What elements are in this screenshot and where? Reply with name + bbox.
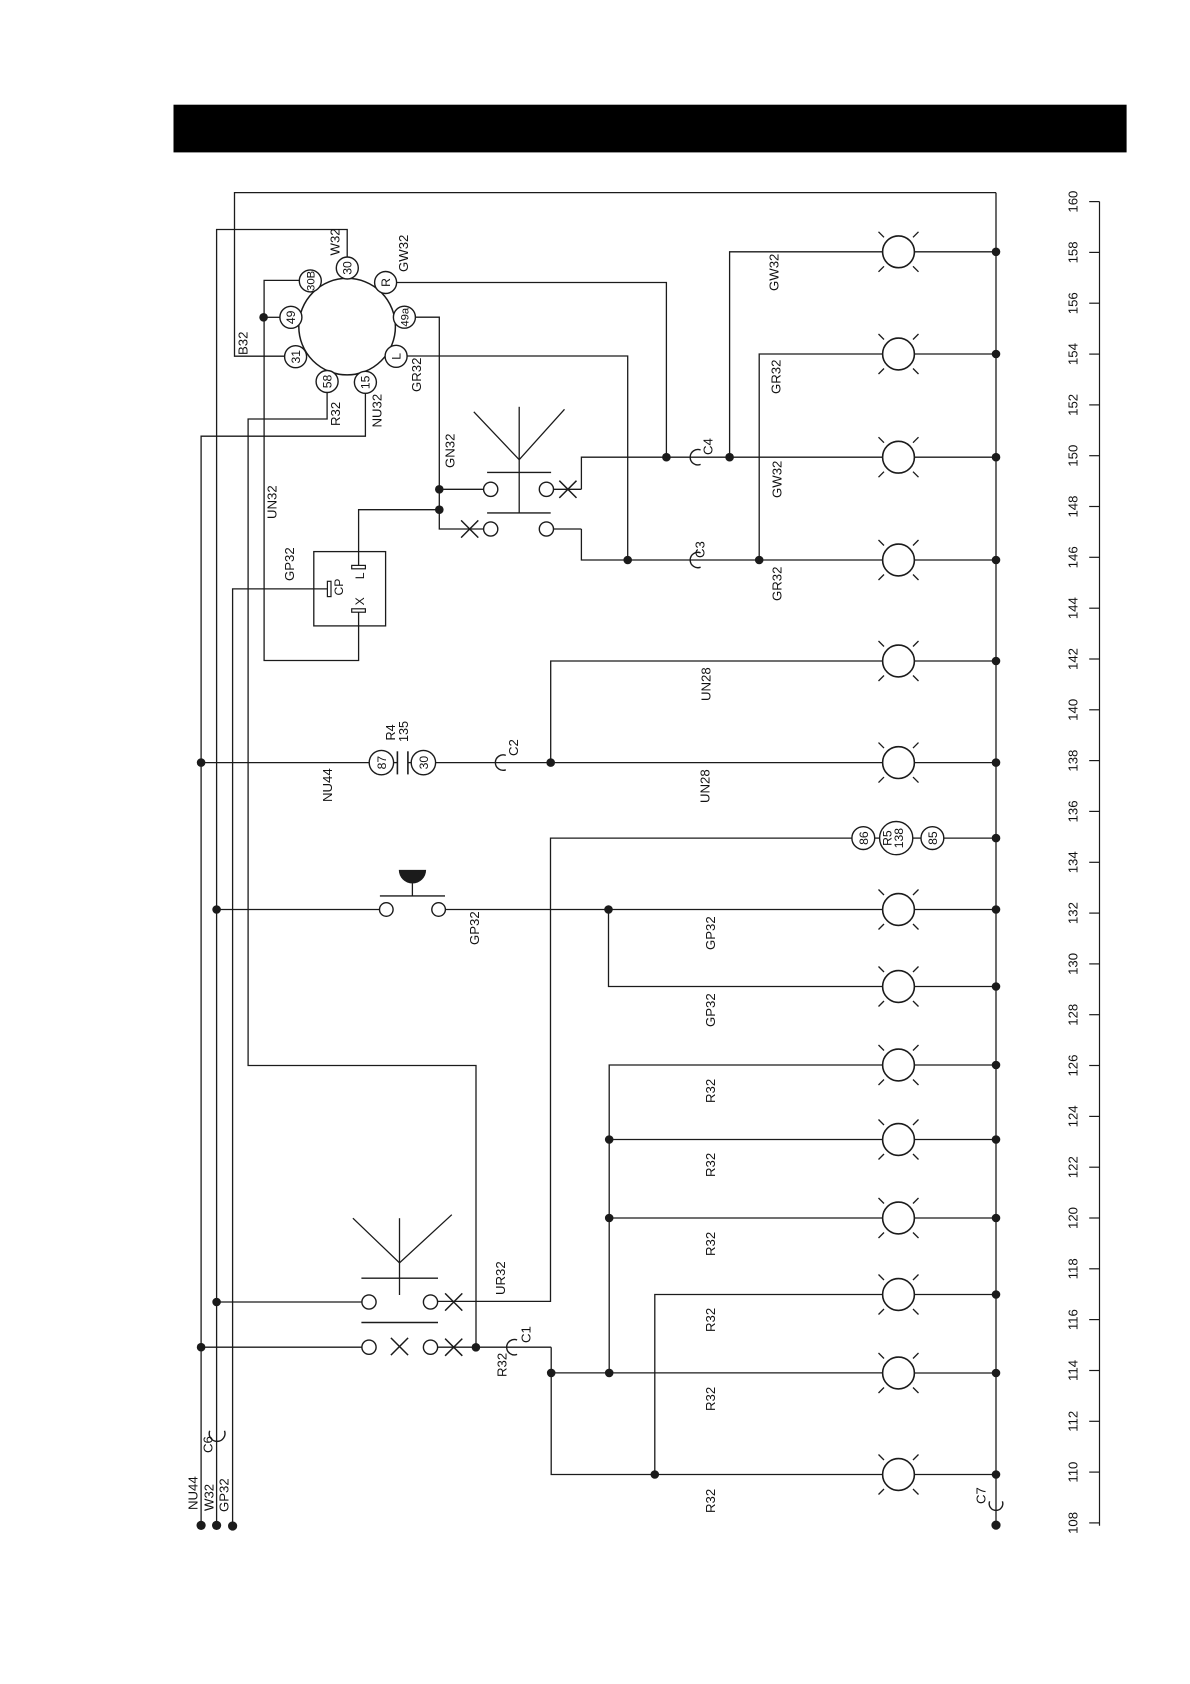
node C1 corner xyxy=(547,1369,556,1378)
svg-text:R32: R32 xyxy=(703,1232,718,1256)
svg-text:144: 144 xyxy=(1066,597,1081,619)
label R32 lamp11 xyxy=(703,1232,718,1256)
contact circle ls-row1 left xyxy=(362,1295,376,1309)
svg-text:150: 150 xyxy=(1066,445,1081,467)
wire W32 to lighting switch xyxy=(217,1301,362,1303)
wire lamp parking GP32 a to bus xyxy=(914,909,996,911)
svg-text:GW32: GW32 xyxy=(396,235,411,272)
svg-text:R32: R32 xyxy=(703,1079,718,1103)
svg-text:NU44: NU44 xyxy=(320,768,335,802)
label GW32 R xyxy=(396,235,411,272)
wire link terminal 49 xyxy=(264,316,280,318)
lamp front indicator right xyxy=(879,232,919,272)
wire NU32 from terminal 15 xyxy=(201,393,365,1525)
turn signal switch lever xyxy=(474,407,565,513)
relay R5 terminal 85 xyxy=(921,827,944,850)
lighting switch bar upper xyxy=(361,1277,438,1279)
label 135 xyxy=(397,721,411,742)
connector C2 xyxy=(495,755,505,770)
svg-text:114: 114 xyxy=(1066,1360,1081,1381)
label UR32 xyxy=(493,1261,508,1295)
node R-line to C4 line xyxy=(662,453,671,462)
wire GW32 from terminal R xyxy=(397,283,667,458)
lamp rear indicator left xyxy=(879,540,919,580)
node junction 49/30B xyxy=(259,313,268,322)
node lamp10 tap xyxy=(605,1135,614,1144)
wire W32 to horn button xyxy=(217,909,380,911)
contact X row1 right xyxy=(559,481,576,498)
lamp instrument UN28 a xyxy=(879,641,919,681)
node L-line to C3 line xyxy=(623,556,632,565)
svg-text:CP: CP xyxy=(332,579,346,596)
label GP32 lamp7 xyxy=(703,916,718,950)
svg-text:146: 146 xyxy=(1066,546,1081,568)
svg-text:49: 49 xyxy=(284,310,298,324)
svg-text:NU44: NU44 xyxy=(186,1476,201,1510)
label GN32 xyxy=(443,434,458,468)
svg-text:R32: R32 xyxy=(494,1353,509,1377)
label GW32 lamp3 xyxy=(770,461,785,498)
wire GP32 from flasher CP xyxy=(233,589,328,1527)
lamp parking GP32 a xyxy=(879,890,919,930)
svg-text:108: 108 xyxy=(1066,1512,1081,1534)
wire lamp rear indicator right to bus xyxy=(914,456,996,458)
wire lamp rear indicator left to bus xyxy=(914,559,996,561)
svg-text:30: 30 xyxy=(341,261,355,275)
svg-text:136: 136 xyxy=(1066,800,1081,822)
node bus tap lamp tail R32 c xyxy=(992,1214,1001,1223)
lamp tail R32 f xyxy=(879,1455,919,1495)
svg-text:UN28: UN28 xyxy=(699,667,714,701)
svg-text:110: 110 xyxy=(1066,1462,1081,1483)
svg-text:GW32: GW32 xyxy=(767,254,782,291)
label W32 xyxy=(327,228,342,255)
relay R5 coil xyxy=(880,822,913,855)
button contact right xyxy=(432,903,446,917)
wire main earth bus B32 xyxy=(995,193,997,1526)
resistor R4 terminal 30 xyxy=(411,750,435,774)
label R32 lamp12 xyxy=(703,1308,718,1332)
lighting switch bar lower xyxy=(361,1322,438,1324)
svg-text:L: L xyxy=(353,572,367,579)
contact circle row1 right xyxy=(539,482,553,496)
contact circle row2 left xyxy=(484,522,498,536)
terminal end NU44 xyxy=(186,1476,206,1530)
contact X ls-row1 xyxy=(445,1293,462,1310)
svg-text:GP32: GP32 xyxy=(467,911,482,945)
turn signal switch bar upper xyxy=(487,471,551,473)
label GP32 button xyxy=(467,911,482,945)
label B32 xyxy=(236,332,251,355)
node V2 to C1 line xyxy=(605,1369,614,1378)
switch terminal 15 xyxy=(354,371,376,393)
svg-text:148: 148 xyxy=(1066,496,1081,518)
node bus tap lamp front indicator left xyxy=(992,350,1001,359)
wire UN32 from terminal 30B xyxy=(264,280,359,660)
contact X ls-row2 mid xyxy=(391,1338,408,1355)
svg-text:154: 154 xyxy=(1066,343,1081,365)
lamp tail R32 a xyxy=(879,1045,919,1085)
svg-text:135: 135 xyxy=(397,721,411,742)
label R32 lamp14 xyxy=(703,1489,718,1513)
node bus tap lamp instrument UN28 a xyxy=(992,657,1001,666)
svg-text:122: 122 xyxy=(1066,1156,1081,1178)
svg-text:134: 134 xyxy=(1066,851,1081,873)
svg-text:R32: R32 xyxy=(703,1387,718,1411)
wire front left indicator xyxy=(759,354,882,560)
label GR32 lamp4 xyxy=(770,567,785,601)
svg-text:R32: R32 xyxy=(703,1308,718,1332)
lamp tail R32 e xyxy=(879,1353,919,1393)
lamp front indicator left xyxy=(879,334,919,374)
svg-text:X: X xyxy=(353,597,367,605)
node lamp2 branch xyxy=(755,556,764,565)
wire 85 to bus xyxy=(944,837,996,839)
svg-text:138: 138 xyxy=(892,828,906,849)
svg-text:C2: C2 xyxy=(506,739,521,756)
label GR32 L xyxy=(409,358,424,392)
svg-text:GP32: GP32 xyxy=(217,1478,232,1512)
node bus tap lamp rear indicator left xyxy=(992,556,1001,565)
contact X row2 left xyxy=(461,520,478,537)
svg-text:GR32: GR32 xyxy=(770,567,785,601)
svg-text:85: 85 xyxy=(926,831,940,845)
wire lamp front indicator right to bus xyxy=(914,251,996,253)
label C2 xyxy=(506,739,521,756)
wire UN28 branch lamp5 xyxy=(551,661,883,763)
wire lamp11 xyxy=(609,1217,882,1219)
node bus tap lamp tail R32 a xyxy=(992,1061,1001,1070)
svg-text:GP32: GP32 xyxy=(703,916,718,950)
contact circle row1 left xyxy=(484,482,498,496)
wire lamp tail R32 b to bus xyxy=(914,1139,996,1141)
svg-text:30B: 30B xyxy=(306,271,318,291)
node lamp11 tap xyxy=(605,1214,614,1223)
scale numbers xyxy=(1066,191,1081,1534)
svg-text:R4: R4 xyxy=(384,724,398,740)
svg-text:58: 58 xyxy=(320,375,334,389)
svg-text:132: 132 xyxy=(1066,902,1081,924)
turn signal switch bar lower xyxy=(487,512,551,514)
connector C1 xyxy=(507,1340,517,1355)
switch terminal 49 xyxy=(280,306,302,328)
wire lamp instrument UN28 b to bus xyxy=(914,762,996,764)
contact circle ls-row1 right xyxy=(423,1295,437,1309)
connector C7 xyxy=(989,1501,1003,1510)
label UN32 xyxy=(265,485,280,519)
horn button bar xyxy=(380,895,445,897)
label C7 xyxy=(973,1487,988,1504)
svg-text:UN32: UN32 xyxy=(265,485,280,519)
flasher unit box GP32 xyxy=(314,552,386,626)
switch terminal L xyxy=(385,345,407,367)
svg-text:126: 126 xyxy=(1066,1055,1081,1077)
node GP32 branch xyxy=(604,905,613,914)
svg-text:C7: C7 xyxy=(973,1487,988,1504)
label C1 xyxy=(518,1326,533,1343)
node bus tap lamp tail R32 f xyxy=(992,1470,1001,1479)
lamp rear indicator right xyxy=(879,437,919,477)
switch terminal 58 xyxy=(316,371,338,393)
wire flasher L to switch common xyxy=(359,510,440,566)
node switch common lower row xyxy=(435,505,444,514)
flasher terminal CP xyxy=(327,579,346,597)
svg-text:R32: R32 xyxy=(703,1153,718,1177)
flasher terminal X xyxy=(352,597,367,612)
contact circle ls-row2 right xyxy=(423,1340,437,1354)
wire GP32 branch lamp8 xyxy=(609,910,883,987)
svg-text:156: 156 xyxy=(1066,292,1081,314)
node bus tap lamp rear indicator right xyxy=(992,453,1001,462)
wire lamp tail R32 e to bus xyxy=(914,1372,996,1374)
button contact left xyxy=(380,903,394,917)
label NU44 xyxy=(320,768,335,802)
svg-text:160: 160 xyxy=(1066,191,1081,213)
svg-text:130: 130 xyxy=(1066,953,1081,975)
wire GN32 from terminal 49a xyxy=(416,317,484,529)
svg-text:118: 118 xyxy=(1066,1258,1081,1279)
svg-text:GP32: GP32 xyxy=(703,993,718,1027)
wire lamp tail R32 a to bus xyxy=(914,1064,996,1066)
switch terminal 30B xyxy=(299,270,321,292)
wire front right indicator xyxy=(730,252,883,457)
svg-text:124: 124 xyxy=(1066,1105,1081,1127)
svg-text:112: 112 xyxy=(1066,1411,1081,1432)
svg-text:140: 140 xyxy=(1066,699,1081,721)
label C4 xyxy=(701,438,716,455)
wire lamp12 branch xyxy=(655,1295,883,1475)
wire lamp tail R32 c to bus xyxy=(914,1217,996,1219)
node R32 feed xyxy=(472,1343,481,1352)
label GP32 lamp8 xyxy=(703,993,718,1027)
wire NU44 to resistor xyxy=(201,762,369,764)
terminal end earth xyxy=(991,1521,1000,1530)
rotary lighting switch body xyxy=(299,278,396,375)
wire lamp10 xyxy=(609,1139,882,1141)
svg-text:31: 31 xyxy=(289,350,303,364)
svg-text:B32: B32 xyxy=(236,332,251,355)
lamp tail R32 d xyxy=(879,1275,919,1315)
horn button cap xyxy=(399,870,426,884)
label C3 xyxy=(693,541,708,558)
svg-text:R32: R32 xyxy=(703,1489,718,1513)
node bus tap lamp parking GP32 a xyxy=(992,905,1001,914)
svg-text:UR32: UR32 xyxy=(493,1261,508,1295)
coordinate scale ruler 108-160 xyxy=(1089,202,1099,1526)
label C6 xyxy=(201,1436,216,1453)
svg-text:GW32: GW32 xyxy=(770,461,785,498)
svg-text:NU32: NU32 xyxy=(370,394,385,428)
lamp instrument UN28 b xyxy=(879,743,919,783)
wire GW32 right indicators C4 line xyxy=(581,457,882,489)
wire R32 lamp13 line xyxy=(551,1347,882,1474)
node W32 to button xyxy=(212,905,221,914)
lamp tail R32 b xyxy=(879,1120,919,1160)
label R32 c1 xyxy=(494,1353,509,1377)
svg-text:W32: W32 xyxy=(201,1484,216,1511)
svg-text:142: 142 xyxy=(1066,648,1081,670)
wire W32 from terminal 30 xyxy=(217,230,348,1526)
connector C6 xyxy=(209,1431,225,1442)
node switch common upper row xyxy=(435,485,444,494)
label NU32 xyxy=(370,394,385,428)
svg-text:116: 116 xyxy=(1066,1309,1081,1330)
wire to left contact row 1 xyxy=(439,488,483,490)
node NU44 to switch xyxy=(197,1343,206,1352)
wire lamp instrument UN28 a to bus xyxy=(914,660,996,662)
svg-text:C6: C6 xyxy=(201,1436,216,1453)
relay R5 terminal 86 xyxy=(852,827,875,850)
svg-text:49a: 49a xyxy=(400,307,412,327)
svg-text:30: 30 xyxy=(417,756,431,770)
lamp tail R32 c xyxy=(879,1198,919,1238)
node bus tap lamp instrument UN28 b xyxy=(992,758,1001,767)
svg-text:R32: R32 xyxy=(328,402,343,426)
terminal end GP32 xyxy=(217,1478,238,1530)
wire UN28 panel line xyxy=(436,762,883,764)
label R32 lamp10 xyxy=(703,1153,718,1177)
svg-text:C3: C3 xyxy=(693,541,708,558)
node bus tap lamp parking GP32 b xyxy=(992,982,1001,991)
node bus tap lamp tail R32 e xyxy=(992,1369,1001,1378)
node bus tap lamp tail R32 b xyxy=(992,1135,1001,1144)
svg-text:152: 152 xyxy=(1066,394,1081,416)
connector C3 xyxy=(690,552,700,567)
wire lamp9 to V2 xyxy=(609,1065,882,1373)
svg-text:GR32: GR32 xyxy=(769,360,784,394)
horn button stem xyxy=(411,884,413,896)
node lamp1 branch xyxy=(725,453,734,462)
node UN28 branch xyxy=(546,758,555,767)
svg-text:GR32: GR32 xyxy=(409,358,424,392)
flasher terminal L xyxy=(352,565,367,579)
lighting switch lever xyxy=(353,1215,452,1295)
wire 86 to coil xyxy=(875,837,880,839)
label R32 58 xyxy=(328,402,343,426)
node bus tap lamp tail R32 d xyxy=(992,1290,1001,1299)
switch terminal 49a xyxy=(393,306,415,328)
wire R32 out with X xyxy=(438,1346,552,1348)
label R32 lamp13 xyxy=(703,1387,718,1411)
wire GR32 from terminal L xyxy=(407,356,628,560)
contact X ls-row2 right xyxy=(445,1339,462,1356)
svg-text:15: 15 xyxy=(359,375,373,389)
label UN28 lamp5 xyxy=(699,667,714,701)
svg-text:158: 158 xyxy=(1066,241,1081,263)
svg-text:128: 128 xyxy=(1066,1004,1081,1026)
contact circle row2 right xyxy=(539,522,553,536)
wire coil to 85 xyxy=(913,837,921,839)
node relay to bus xyxy=(992,834,1001,843)
wire R32 from terminal 58 xyxy=(248,393,476,1348)
terminal end W32 xyxy=(201,1484,221,1530)
wire NU44 to lighting switch xyxy=(201,1346,362,1348)
node bus tap lamp front indicator right xyxy=(992,248,1001,257)
label GW32 lamp1 xyxy=(767,254,782,291)
wire lamp parking GP32 b to bus xyxy=(914,986,996,988)
switch terminal 30 xyxy=(336,257,358,279)
svg-text:C1: C1 xyxy=(518,1326,533,1343)
svg-text:GP32: GP32 xyxy=(282,547,297,581)
node W32 to switch xyxy=(212,1298,221,1307)
resistor R4 terminal 87 xyxy=(369,750,393,774)
wire row2 right xyxy=(554,528,582,530)
switch terminal R xyxy=(375,272,397,294)
wire lamp front indicator left to bus xyxy=(914,353,996,355)
label UN28 lamp6 xyxy=(698,769,713,803)
svg-text:86: 86 xyxy=(857,831,871,845)
wire UR32 to relay 86 xyxy=(438,838,852,1301)
svg-text:UN28: UN28 xyxy=(698,769,713,803)
wire GR32 left indicators C3 line xyxy=(581,529,882,560)
svg-text:87: 87 xyxy=(375,756,389,770)
resistor R4 element xyxy=(394,751,412,774)
wire GP32 horn line xyxy=(445,909,882,911)
node lamp14 tap xyxy=(651,1470,660,1479)
connector C4 xyxy=(690,450,700,465)
contact circle ls-row2 left xyxy=(362,1340,376,1354)
wire top feed to terminal 31 xyxy=(235,193,997,357)
label R32 lamp9 xyxy=(703,1079,718,1103)
wire lamp tail R32 d to bus xyxy=(914,1294,996,1296)
svg-text:C4: C4 xyxy=(701,438,716,455)
svg-text:GN32: GN32 xyxy=(443,434,458,468)
svg-text:R: R xyxy=(379,278,393,287)
wire row1 right with contact X xyxy=(554,488,582,490)
lamp parking GP32 b xyxy=(879,967,919,1007)
title banner xyxy=(174,105,1127,153)
svg-text:120: 120 xyxy=(1066,1207,1081,1229)
label GP32 cp xyxy=(282,547,297,581)
label R4 xyxy=(384,724,398,740)
node NU44 tap xyxy=(197,758,206,767)
wire lamp tail R32 f to bus xyxy=(914,1474,996,1476)
svg-text:138: 138 xyxy=(1066,750,1081,772)
switch terminal 31 xyxy=(285,346,307,368)
svg-text:W32: W32 xyxy=(327,228,342,255)
svg-text:L: L xyxy=(389,353,403,360)
label GR32 lamp2 xyxy=(769,360,784,394)
